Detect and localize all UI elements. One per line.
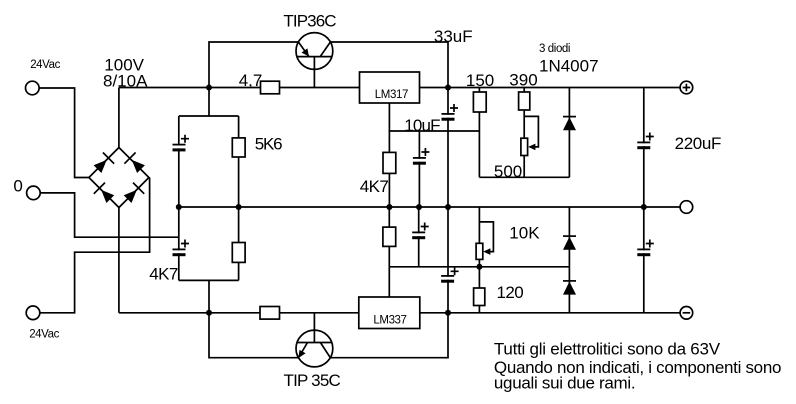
capacitor 220uF top xyxy=(637,133,654,150)
resistor 4,7 top xyxy=(261,81,280,94)
svg-text:150: 150 xyxy=(466,71,494,90)
resistor 390 xyxy=(519,92,530,110)
svg-text:24Vac: 24Vac xyxy=(29,329,59,341)
wire 33uF vertical xyxy=(447,88,449,208)
bridge diode D3 bottom-left xyxy=(94,183,114,203)
wire top bus right segment xyxy=(420,87,681,89)
svg-text:500: 500 xyxy=(494,162,522,181)
svg-text:LM317: LM317 xyxy=(375,89,408,101)
terminal 0 center tap xyxy=(27,186,41,200)
svg-text:4,7: 4,7 xyxy=(239,71,263,90)
wire 10K-120 chain vertical xyxy=(478,207,480,313)
wire top collector wire xyxy=(209,42,448,88)
terminal 24Vac top xyxy=(26,81,40,95)
bridge diode D2 top-right xyxy=(124,153,144,174)
wire 24Vac bottom terminal to bridge right xyxy=(40,178,150,313)
capacitor 33uF top xyxy=(442,104,459,121)
resistor 4K7 top xyxy=(383,152,396,173)
svg-text:33uF: 33uF xyxy=(434,27,473,46)
resistor 5K6 bottom xyxy=(232,243,245,263)
capacitor top-left electrolytic xyxy=(173,135,190,152)
svg-text:24Vac: 24Vac xyxy=(30,59,60,71)
wire top-left node line xyxy=(179,88,209,117)
svg-text:uguali sui due rami.: uguali sui due rami. xyxy=(494,373,635,392)
capacitor 220uF bottom xyxy=(637,240,654,257)
bridge diode D4 bottom-right xyxy=(124,183,145,203)
wire LM317 ADJ pin xyxy=(389,103,479,131)
wire 10uF top vertical xyxy=(418,131,420,207)
wire LM337 ADJ chain xyxy=(388,207,390,297)
resistor 5K6 top xyxy=(232,138,245,157)
svg-text:LM337: LM337 xyxy=(373,315,406,327)
capacitor 10uF top xyxy=(413,148,430,165)
svg-text:8/10A: 8/10A xyxy=(103,72,148,91)
wire capacitor C1 vertical xyxy=(178,116,180,207)
capacitor 10uF bottom xyxy=(412,223,429,240)
wire top diode vertical xyxy=(568,88,570,178)
svg-text:4K7: 4K7 xyxy=(360,177,389,196)
svg-text:Tutti gli elettrolitici sono d: Tutti gli elettrolitici sono da 63V xyxy=(494,340,721,359)
resistor 4K7 bottom xyxy=(383,227,396,246)
terminal 24Vac bottom xyxy=(26,306,40,320)
wire 220uF top vertical xyxy=(643,88,645,208)
diode top 1N4007 xyxy=(563,117,576,131)
transistor Q1 TIP36C xyxy=(296,33,333,88)
svg-text:220uF: 220uF xyxy=(675,134,721,153)
wire 10K trimmer wiper loop xyxy=(479,222,493,252)
wire bottom bus right segment xyxy=(420,312,680,314)
wire 0V center tap xyxy=(40,193,179,237)
trimmer 500 body xyxy=(521,138,528,155)
svg-text:0: 0 xyxy=(13,176,22,195)
capacitor 33uF bottom xyxy=(441,267,459,282)
terminal 0 output xyxy=(680,201,693,214)
svg-text:10K: 10K xyxy=(509,224,540,243)
wire mid bus 0V xyxy=(179,206,680,208)
wire bottom emitter wire xyxy=(209,313,448,358)
trimmer 500 wiper arrow xyxy=(528,144,535,151)
op-amp U1 LM317 box xyxy=(360,72,420,103)
wire bottom bus left segment xyxy=(119,312,359,314)
svg-text:120: 120 xyxy=(497,283,524,302)
terminal - output xyxy=(680,307,693,320)
trimmer 10K wiper arrow xyxy=(483,248,490,255)
wire bridge top to bus xyxy=(118,88,120,148)
diode middle 1N4007 xyxy=(563,236,576,250)
wire resistor 5K6 vertical xyxy=(238,116,240,207)
resistor 150 xyxy=(473,92,486,112)
resistor 4,7 bottom xyxy=(260,307,280,320)
wire 4K7 top vertical xyxy=(388,131,390,207)
svg-text:390: 390 xyxy=(509,71,537,90)
svg-text:3 diodi: 3 diodi xyxy=(539,43,570,55)
bridge rectifier diamond xyxy=(89,148,149,208)
wire 10uF bottom vertical xyxy=(418,207,420,267)
wire ADJ337 bus xyxy=(389,266,569,268)
wire resistor 5K6b vertical xyxy=(238,207,240,280)
resistor 120 xyxy=(474,288,485,306)
capacitor bottom-left electrolytic xyxy=(173,240,190,257)
op-amp U2 LM337 box xyxy=(359,297,420,329)
wire 390-500 chain vertical xyxy=(523,88,525,178)
wire 150 chain vertical xyxy=(478,88,480,178)
wire 24Vac top terminal to bridge left xyxy=(39,88,89,178)
wire 220uF bottom vertical xyxy=(643,207,645,313)
svg-text:TIP 35C: TIP 35C xyxy=(284,371,341,390)
wire capacitor C5 vertical xyxy=(178,207,180,280)
wire bridge bottom to bus xyxy=(118,208,120,313)
trimmer 10K body xyxy=(476,243,483,259)
wire lower diodes vertical xyxy=(568,207,570,313)
wire top bus left segment xyxy=(119,87,360,89)
wire 33uF bottom vertical xyxy=(447,207,449,313)
svg-text:5K6: 5K6 xyxy=(255,134,282,153)
diode bottom 1N4007 xyxy=(563,281,576,295)
wire bottom-left node line xyxy=(179,280,209,312)
terminal + output xyxy=(680,81,693,94)
wire 500 trimmer wiper loop xyxy=(524,116,538,146)
svg-text:10uF: 10uF xyxy=(404,116,440,135)
svg-text:TIP36C: TIP36C xyxy=(283,12,336,31)
svg-text:4K7: 4K7 xyxy=(149,265,178,284)
bridge diode D1 top-left xyxy=(94,153,115,174)
svg-text:1N4007: 1N4007 xyxy=(539,57,599,76)
wire 500 bus xyxy=(479,176,569,178)
junction dots xyxy=(206,85,212,91)
transistor Q2 TIP35C xyxy=(296,313,333,367)
